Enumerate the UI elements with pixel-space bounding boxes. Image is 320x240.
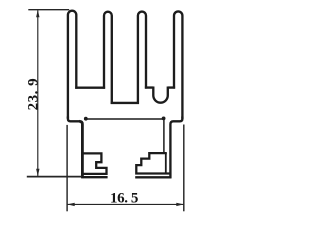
svg-text:23. 9: 23. 9 [26, 78, 42, 111]
svg-text:16. 5: 16. 5 [110, 191, 138, 207]
